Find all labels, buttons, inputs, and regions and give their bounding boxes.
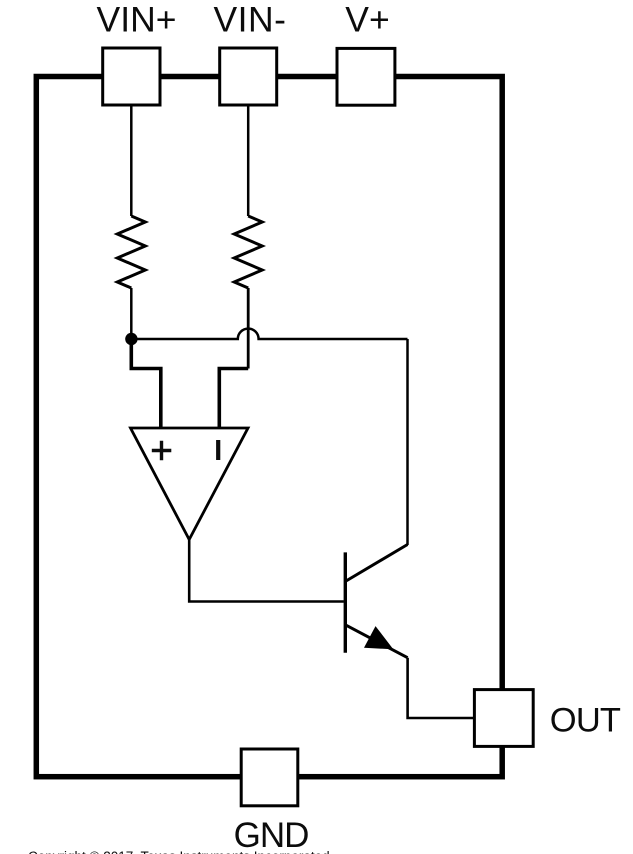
svg-text:VIN-: VIN-	[214, 0, 287, 40]
op-amp + input mark	[152, 441, 172, 460]
wire op-amp output to transistor base	[189, 540, 344, 602]
svg-text:V+: V+	[345, 0, 389, 40]
wire VIN- lead down	[247, 105, 250, 216]
wire R2 bottom lead through crossing	[247, 288, 250, 369]
transistor Q1 base bar	[344, 552, 347, 652]
transistor Q1 emitter arrow	[365, 627, 393, 649]
wire node horizontal with hop over VIN- wire	[131, 329, 407, 339]
pin box V+	[337, 48, 395, 105]
wire step node to op-amp + input	[131, 339, 161, 427]
resistor R2	[234, 216, 262, 288]
pin box VIN+	[103, 48, 160, 105]
wire VIN+ lead down	[130, 105, 133, 216]
op-amp U1	[131, 428, 249, 540]
svg-text:VIN+: VIN+	[97, 0, 177, 40]
node junction dot	[125, 333, 137, 345]
outer boundary rectangle	[36, 77, 502, 777]
pin box VIN-	[220, 48, 277, 105]
svg-text:Copyright © 2017, Texas Instru: Copyright © 2017, Texas Instruments Inco…	[28, 849, 330, 854]
wire step VIN- to op-amp - input	[219, 369, 248, 428]
transistor Q1 emitter	[346, 625, 408, 658]
op-amp inverting input mark	[216, 440, 220, 460]
wire collector drop from node line	[406, 339, 409, 545]
resistor R1	[117, 216, 145, 288]
pin box OUT	[474, 690, 533, 747]
pin box GND	[241, 749, 298, 806]
wire emitter to OUT box	[408, 658, 475, 718]
svg-text:OUT: OUT	[550, 702, 621, 740]
wire R1 bottom lead	[130, 288, 133, 339]
transistor Q1 collector	[346, 545, 408, 582]
